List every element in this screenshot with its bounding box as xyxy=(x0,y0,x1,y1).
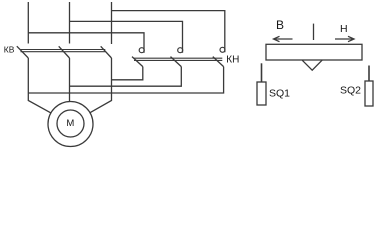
arrow left (direction B) xyxy=(274,36,293,41)
contactor KH contact 1 blade xyxy=(132,57,143,67)
wire L2 feed vertical xyxy=(69,2,71,44)
svg-text:SQ1: SQ1 xyxy=(269,87,290,99)
limit switch SQ2 body xyxy=(365,81,373,106)
motor M outer circle xyxy=(48,102,93,147)
wire motor phase 3 xyxy=(90,58,112,113)
arrow right (direction H) xyxy=(335,36,354,41)
motor M inner circle xyxy=(57,110,84,137)
wire branch L1 to KH1 xyxy=(28,33,144,53)
carriage pointer wedge xyxy=(302,60,322,70)
limit switch SQ2 stem xyxy=(368,66,370,82)
wire motor phase 1 xyxy=(28,58,51,113)
contactor KB linkage bar xyxy=(21,50,106,52)
wire motor phase 2 xyxy=(69,58,71,102)
contactor KH contact 1 fixed hook xyxy=(139,48,144,53)
limit switch SQ1 body xyxy=(257,82,266,105)
carriage bar xyxy=(266,44,362,60)
wire KH3 output to node L1-lower xyxy=(28,67,223,93)
carriage position tick xyxy=(313,24,315,40)
svg-text:SQ2: SQ2 xyxy=(340,84,361,96)
contactor KH contact 3 fixed hook xyxy=(220,47,225,52)
wire L1 feed vertical xyxy=(27,2,29,44)
wire branch L2 to KH2 xyxy=(70,21,183,52)
wire KH2 output to node L2-lower xyxy=(70,67,182,87)
svg-text:КВ: КВ xyxy=(4,45,15,55)
contactor KB contact 2 blade xyxy=(59,46,70,58)
contactor KB contact 1 blade xyxy=(17,46,29,58)
contactor KH linkage bar xyxy=(134,58,222,60)
wire branch L3 to KH3 xyxy=(112,11,225,53)
svg-text:КН: КН xyxy=(226,54,239,65)
contactor KH contact 2 fixed hook xyxy=(178,48,183,53)
limit switch SQ1 stem xyxy=(261,63,263,82)
svg-text:В: В xyxy=(276,18,284,32)
wire KH1 output to node L3-lower xyxy=(112,67,143,80)
contactor KB contact 3 blade xyxy=(101,46,112,58)
wire L3 feed vertical xyxy=(111,2,113,44)
svg-text:Н: Н xyxy=(340,23,348,35)
contactor KH contact 2 blade xyxy=(171,57,182,67)
contactor KH contact 3 blade xyxy=(213,57,224,67)
svg-text:М: М xyxy=(66,118,74,129)
